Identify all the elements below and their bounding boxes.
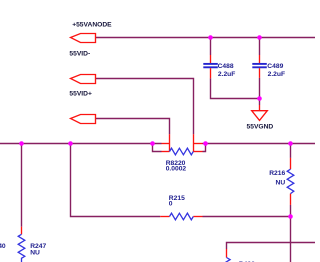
resistor R215 pins xyxy=(160,216,202,218)
wire 55VID- from port down to shunt sense pin xyxy=(96,79,194,135)
wire 55VID+ from port down to shunt sense pin xyxy=(96,119,170,135)
svg-text:55VID-: 55VID- xyxy=(69,50,90,57)
port +55VANODE xyxy=(71,34,96,43)
svg-text:NU: NU xyxy=(30,250,40,257)
resistor R247 body xyxy=(18,234,25,262)
port 55VID- xyxy=(71,75,96,84)
port 55VID+ xyxy=(71,115,96,124)
wire R216 bottom lead down past crossings xyxy=(290,205,292,262)
svg-text:2.2uF: 2.2uF xyxy=(268,71,285,78)
capacitor C489 xyxy=(252,55,266,78)
svg-text:0.0002: 0.0002 xyxy=(166,166,187,173)
wire left drop to R247 xyxy=(21,144,23,227)
wire R216 top lead xyxy=(290,144,292,158)
wire jog right of shunt xyxy=(203,144,206,152)
svg-text:0: 0 xyxy=(169,201,173,208)
svg-text:R216: R216 xyxy=(269,170,285,177)
svg-text:C489: C489 xyxy=(267,63,283,70)
resistor R436 clipped at bottom xyxy=(224,249,231,262)
wire ground stem xyxy=(259,99,261,106)
shunt R8220 pins (red) xyxy=(162,134,203,152)
svg-text:55VGND: 55VGND xyxy=(247,124,274,131)
resistor R216 pins xyxy=(290,158,292,205)
wire net +55VANODE top bus xyxy=(96,37,316,39)
wire main bus left xyxy=(0,143,162,145)
resistor R247 pin xyxy=(21,227,23,235)
wire jog left of shunt xyxy=(153,144,162,152)
wire R215 right to R216 node xyxy=(203,216,291,218)
svg-text:40: 40 xyxy=(0,243,6,250)
svg-text:2.2uF: 2.2uF xyxy=(218,71,235,78)
resistor R8220 body xyxy=(170,148,194,155)
svg-text:C488: C488 xyxy=(218,63,234,70)
resistor R215 body xyxy=(170,213,194,220)
wire bottom horizontal to R436 xyxy=(227,243,316,250)
svg-text:+55VANODE: +55VANODE xyxy=(72,21,112,28)
wire C488 top lead xyxy=(210,38,212,56)
capacitor C488 xyxy=(203,55,218,78)
wire main bus right xyxy=(203,143,316,145)
ground 55VGND xyxy=(252,105,268,120)
wire caps bottom to ground node xyxy=(211,78,260,99)
svg-text:55VID+: 55VID+ xyxy=(69,90,92,97)
wire C489 top lead xyxy=(259,38,261,56)
resistor R216 body xyxy=(287,169,294,193)
svg-text:NU: NU xyxy=(276,179,286,186)
wire drop and run to R215 xyxy=(71,144,161,217)
node junction dots xyxy=(19,35,293,219)
